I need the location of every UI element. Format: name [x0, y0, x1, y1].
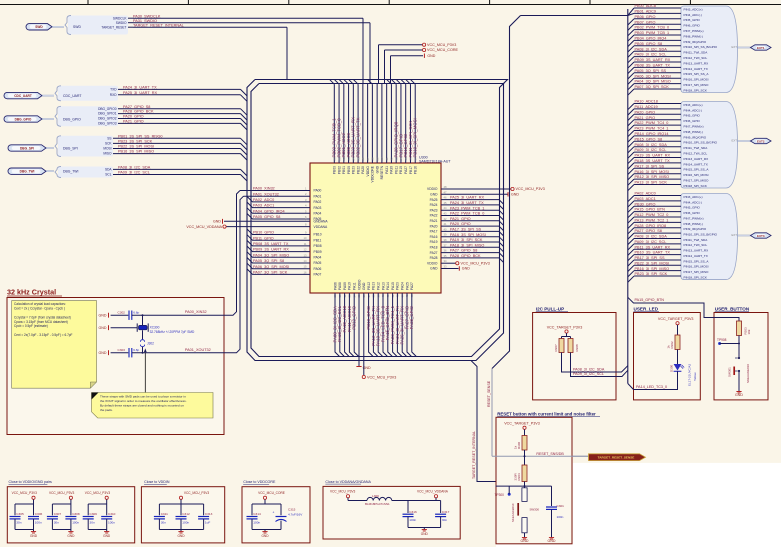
svg-text:VCC_MCU_P3V3: VCC_MCU_P3V3 [49, 491, 75, 495]
svg-text:100n: 100n [557, 515, 564, 519]
svg-text:PA31: PA31 [385, 166, 389, 174]
svg-text:PA17_3S_SPI_SS: PA17_3S_SPI_SS [450, 228, 482, 232]
svg-text:PA23: PA23 [430, 208, 438, 212]
svg-text:36: 36 [444, 249, 447, 253]
svg-text:Cext = 2x(7.0pF - 3.15pF - 0.5: Cext = 2x(7.0pF - 3.15pF - 0.5pF) = 6.7p… [14, 333, 73, 337]
svg-text:PIN15_SPI_SS_A: PIN15_SPI_SS_A [684, 259, 710, 263]
svg-text:DBG_SPI: DBG_SPI [20, 146, 34, 150]
svg-text:PB10_3S_UART_TX: PB10_3S_UART_TX [635, 251, 671, 255]
svg-text:PB12_GPIO: PB12_GPIO [352, 305, 357, 329]
svg-text:PIN14_UART_TX: PIN14_UART_TX [684, 162, 708, 166]
svg-text:Close to VDDCORE: Close to VDDCORE [243, 480, 276, 484]
svg-text:PIN7_PWM(+): PIN7_PWM(+) [684, 125, 704, 129]
svg-text:CDC_UART: CDC_UART [14, 94, 32, 98]
svg-text:PB01_3S_SPI_SS_RI9G0: PB01_3S_SPI_SS_RI9G0 [118, 134, 163, 138]
svg-text:EL17-21UYC/A2: EL17-21UYC/A2 [688, 363, 692, 386]
svg-text:PA27: PA27 [410, 282, 414, 290]
svg-text:MOSI: MOSI [103, 147, 111, 151]
svg-text:SWDIO: SWDIO [116, 21, 127, 25]
svg-text:USER_BUTTON: USER_BUTTON [715, 307, 750, 312]
svg-text:PA28: PA28 [430, 256, 438, 260]
svg-text:45: 45 [444, 201, 447, 205]
svg-text:TXD: TXD [110, 88, 117, 92]
svg-text:PB16: PB16 [414, 166, 418, 174]
svg-text:PA24: PA24 [401, 282, 405, 290]
svg-text:GND: GND [430, 193, 438, 197]
svg-text:DBG_GPIO1: DBG_GPIO1 [98, 112, 117, 116]
svg-text:GND: GND [99, 351, 107, 355]
svg-text:PIN10_SPI_SS_B/GPIO: PIN10_SPI_SS_B/GPIO [684, 232, 718, 236]
svg-text:44: 44 [444, 206, 447, 210]
svg-text:PA18: PA18 [430, 246, 438, 250]
svg-text:PA09_3I_I2C_SCL: PA09_3I_I2C_SCL [635, 240, 667, 244]
svg-text:PA06: PA06 [333, 282, 337, 290]
svg-text:PA14: PA14 [386, 282, 390, 290]
svg-text:VDDIO: VDDIO [427, 187, 438, 191]
svg-text:PB10: PB10 [399, 166, 403, 174]
svg-text:GND: GND [427, 54, 435, 58]
svg-text:R306: R306 [517, 441, 521, 449]
svg-text:VCC_MCU_CORE: VCC_MCU_CORE [427, 48, 458, 52]
svg-text:PB11_GPIO: PB11_GPIO [253, 236, 274, 240]
svg-text:PIN18_SPI_SCK: PIN18_SPI_SCK [684, 88, 708, 92]
svg-text:PA27: PA27 [430, 251, 438, 255]
svg-text:29: 29 [375, 157, 379, 160]
svg-text:C303: C303 [118, 348, 126, 352]
svg-text:PA28_GPIO_IRQ8: PA28_GPIO_IRQ8 [635, 224, 667, 228]
svg-text:PA02: PA02 [314, 200, 322, 204]
svg-text:30n: 30n [54, 521, 59, 525]
svg-text:EXT1: EXT1 [757, 46, 765, 50]
svg-text:GND: GND [99, 313, 107, 317]
svg-text:10: 10 [304, 236, 307, 240]
svg-text:SDA: SDA [105, 168, 112, 172]
svg-text:38: 38 [444, 238, 447, 242]
svg-text:PA21_GPIO: PA21_GPIO [123, 120, 144, 124]
svg-text:PA05_3Q_SPI_S8: PA05_3Q_SPI_S8 [253, 259, 284, 263]
svg-text:100n: 100n [72, 521, 79, 525]
svg-text:PIN10_SPI_SS_B/GPIO: PIN10_SPI_SS_B/GPIO [684, 45, 718, 49]
svg-text:PA00: PA00 [314, 189, 322, 193]
svg-text:PA03_ADC1: PA03_ADC1 [635, 197, 656, 201]
svg-text:D300: D300 [669, 364, 673, 372]
svg-text:VDDCORE: VDDCORE [371, 165, 375, 182]
svg-text:PB08_3S_UART_TX: PB08_3S_UART_TX [253, 242, 289, 246]
svg-text:VCC_MCU_P3V3: VCC_MCU_P3V3 [330, 490, 356, 494]
svg-text:PA27: PA27 [404, 166, 408, 174]
svg-text:RESET button with current limi: RESET button with current limit and nois… [497, 411, 596, 416]
svg-text:PIN9_IRQ/GPIO: PIN9_IRQ/GPIO [684, 40, 707, 44]
svg-text:30: 30 [380, 157, 384, 160]
svg-text:EXT2: EXT2 [757, 139, 765, 143]
svg-text:33: 33 [444, 265, 447, 269]
svg-text:DBG_TWI: DBG_TWI [63, 170, 79, 174]
svg-text:GND: GND [177, 534, 185, 538]
svg-text:41: 41 [444, 222, 447, 226]
svg-text:EXT: EXT [732, 139, 738, 143]
svg-text:GND: GND [548, 539, 556, 543]
svg-text:PB03: PB03 [333, 166, 337, 174]
svg-text:C310: C310 [108, 512, 116, 516]
svg-text:PA31_SWDIO: PA31_SWDIO [133, 19, 157, 23]
svg-text:14: 14 [304, 259, 307, 263]
svg-text:PA15_GPIO_BTN: PA15_GPIO_BTN [635, 298, 665, 302]
svg-text:Close to VDDIO/GND pairs: Close to VDDIO/GND pairs [9, 480, 53, 484]
svg-text:PIN10_SPI_SS_B/GPIO: PIN10_SPI_SS_B/GPIO [684, 141, 718, 145]
svg-text:PA05_GPIO_S8: PA05_GPIO_S8 [253, 215, 280, 219]
svg-text:PA20_GPIO: PA20_GPIO [450, 222, 471, 226]
svg-text:32 kHz Crystal: 32 kHz Crystal [7, 288, 56, 297]
svg-text:C317: C317 [442, 510, 450, 514]
svg-text:30n: 30n [16, 521, 21, 525]
svg-text:MISO: MISO [103, 152, 112, 156]
svg-text:GND: GND [213, 220, 221, 224]
svg-text:PA09_3I_I2C_SCL: PA09_3I_I2C_SCL [118, 171, 150, 175]
svg-text:PA08_3I_I2C_SDA: PA08_3I_I2C_SDA [573, 367, 605, 371]
svg-text:GND: GND [362, 282, 366, 290]
svg-text:PB10_3I_SPI_MOSI: PB10_3I_SPI_MOSI [413, 118, 418, 157]
svg-text:PA04: PA04 [314, 212, 322, 216]
svg-text:TARGET_RESET_INTERNAL: TARGET_RESET_INTERNAL [472, 431, 476, 479]
svg-text:GND: GND [375, 165, 379, 173]
svg-text:PA16_3S_SPI_MOSI: PA16_3S_SPI_MOSI [450, 233, 486, 237]
svg-text:PA06_3Q_SPI_MOSI: PA06_3Q_SPI_MOSI [635, 74, 671, 78]
svg-text:47: 47 [444, 190, 447, 194]
svg-text:PB23: PB23 [352, 166, 356, 174]
svg-text:PB12: PB12 [367, 282, 371, 290]
svg-text:PA28_GPIO_BCK: PA28_GPIO_BCK [123, 110, 154, 114]
svg-text:PB16_3S_SPI_MISO: PB16_3S_SPI_MISO [118, 150, 154, 154]
svg-text:PA19_3S_UART_RX: PA19_3S_UART_RX [635, 154, 671, 158]
svg-text:PA18_3S_UART_TX: PA18_3S_UART_TX [635, 159, 671, 163]
svg-text:PA30: PA30 [390, 166, 394, 174]
svg-text:42: 42 [444, 217, 447, 221]
svg-text:PA01_XOUT32: PA01_XOUT32 [185, 348, 211, 352]
svg-text:PB23_3I_SPI_SCK: PB23_3I_SPI_SCK [635, 272, 668, 276]
svg-text:6.8p: 6.8p [133, 348, 139, 352]
svg-text:PIN5_GPIO: PIN5_GPIO [684, 18, 701, 22]
svg-text:These straps with SMD pads can: These straps with SMD pads can be used t… [100, 394, 186, 398]
svg-text:PA22: PA22 [430, 214, 438, 218]
svg-text:PIN9_IRQ/GPIO: PIN9_IRQ/GPIO [684, 135, 707, 139]
svg-text:PIN14_UART_TX: PIN14_UART_TX [684, 67, 708, 71]
svg-text:R302: R302 [670, 341, 674, 349]
svg-text:PA23: PA23 [396, 282, 400, 290]
svg-text:C305: C305 [16, 512, 24, 516]
svg-text:PIN12_TWI_SCL: PIN12_TWI_SCL [684, 152, 708, 156]
svg-text:RESETN: RESETN [380, 165, 384, 179]
svg-text:PB11_3S_UART_RX: PB11_3S_UART_RX [635, 245, 671, 249]
svg-text:PA10_ADC18: PA10_ADC18 [635, 100, 658, 104]
svg-text:EXT: EXT [732, 45, 738, 49]
svg-text:PA08: PA08 [338, 282, 342, 290]
svg-text:C316: C316 [409, 510, 417, 514]
svg-text:BLM18PG471SN1: BLM18PG471SN1 [365, 502, 390, 506]
svg-text:PA20_GPIO: PA20_GPIO [635, 110, 656, 114]
svg-text:PA21_GPIO: PA21_GPIO [450, 217, 471, 221]
svg-text:XC300: XC300 [150, 325, 160, 329]
svg-text:PA24_3I_UART_TX: PA24_3I_UART_TX [123, 86, 157, 90]
svg-text:PA07_3Q_SPI_SCK: PA07_3Q_SPI_SCK [253, 271, 288, 275]
svg-text:C306: C306 [35, 512, 43, 516]
svg-text:C309: C309 [90, 512, 98, 516]
svg-text:PB02_PWM_TCB_0: PB02_PWM_TCB_0 [635, 26, 670, 30]
svg-text:100n: 100n [253, 521, 260, 525]
svg-text:PIN4_ADC(-): PIN4_ADC(-) [684, 13, 702, 17]
svg-text:RXD: RXD [110, 93, 117, 97]
svg-text:GND: GND [735, 393, 743, 397]
svg-text:PA06: PA06 [314, 267, 322, 271]
svg-text:PB23_3S_SPI_SCK: PB23_3S_SPI_SCK [118, 140, 153, 144]
svg-text:27: 27 [366, 157, 370, 160]
svg-text:VCC_MCU_VDDANA: VCC_MCU_VDDANA [186, 225, 222, 229]
svg-text:PA16: PA16 [430, 235, 438, 239]
svg-text:PB08_3S_UART_TX: PB08_3S_UART_TX [635, 64, 671, 68]
svg-text:PIN12_TWI_SCL: PIN12_TWI_SCL [684, 56, 708, 60]
svg-text:PB16_3I_SPI_MISO: PB16_3I_SPI_MISO [635, 267, 670, 271]
svg-text:PIN6_GPIO: PIN6_GPIO [684, 24, 701, 28]
svg-text:EXT: EXT [732, 233, 738, 237]
svg-text:PA07_3Q_SPI_SCK: PA07_3Q_SPI_SCK [635, 85, 670, 89]
svg-text:GND: GND [30, 534, 38, 538]
svg-text:Cext = 2x ( Ccrystal - Cpara -: Cext = 2x ( Ccrystal - Cpara - Cpcb ) [14, 307, 65, 311]
svg-text:PA25: PA25 [405, 282, 409, 290]
svg-text:PA13_3I_SPI_SCK: PA13_3I_SPI_SCK [635, 181, 668, 185]
svg-text:37: 37 [444, 243, 447, 247]
svg-text:PB22_3I_SPI_MOSI: PB22_3I_SPI_MOSI [635, 261, 670, 265]
svg-text:1uF: 1uF [205, 521, 210, 525]
svg-text:PB08: PB08 [314, 244, 322, 248]
svg-text:VCC_TARGET_P3V3: VCC_TARGET_P3V3 [658, 317, 694, 321]
svg-text:PB01: PB01 [342, 166, 346, 174]
svg-text:PIN16_SPI_MOSI: PIN16_SPI_MOSI [684, 173, 709, 177]
svg-text:PB07_GPIO: PB07_GPIO [635, 20, 656, 24]
svg-text:PIN9_IRQ/GPIO: PIN9_IRQ/GPIO [684, 227, 707, 231]
svg-text:TP300: TP300 [495, 493, 505, 497]
svg-text:100n: 100n [409, 518, 416, 522]
svg-text:Close to VDDANA/GNDANA: Close to VDDANA/GNDANA [325, 480, 371, 484]
svg-text:VCC_MCU_VDDANA: VCC_MCU_VDDANA [417, 490, 449, 494]
svg-text:1k: 1k [666, 345, 670, 349]
svg-text:PIN11_TWI_SDA: PIN11_TWI_SDA [684, 238, 709, 242]
svg-text:PB10_GPIO: PB10_GPIO [253, 231, 274, 235]
svg-text:PA25: PA25 [430, 198, 438, 202]
svg-text:SCK: SCK [105, 142, 112, 146]
svg-text:PB09_3S_UART_RX: PB09_3S_UART_RX [635, 58, 671, 62]
svg-text:J302: J302 [147, 341, 154, 345]
svg-text:+: + [273, 510, 275, 514]
svg-text:TARGET_RESET_INTERNAL: TARGET_RESET_INTERNAL [133, 23, 184, 27]
svg-text:GND: GND [67, 534, 75, 538]
svg-text:C314: C314 [253, 512, 261, 516]
svg-text:PA21: PA21 [430, 219, 438, 223]
svg-text:TARGET_RESET: TARGET_RESET [101, 25, 126, 29]
svg-text:VCC_MCU_P3V3: VCC_MCU_P3V3 [367, 375, 396, 379]
svg-text:PIN15_SPI_SS_A: PIN15_SPI_SS_A [684, 168, 710, 172]
svg-text:PIN11_TWI_SDA: PIN11_TWI_SDA [684, 146, 709, 150]
svg-text:C315: C315 [288, 508, 296, 512]
svg-text:SWD: SWD [73, 25, 81, 29]
svg-text:100n: 100n [182, 521, 189, 525]
svg-text:PA23_PWM_TC4_1: PA23_PWM_TC4_1 [635, 127, 669, 131]
svg-text:PA28_GPIO: PA28_GPIO [409, 305, 414, 329]
svg-text:By default these straps are cl: By default these straps are closed and n… [100, 404, 184, 408]
svg-text:PA03: PA03 [314, 206, 322, 210]
svg-text:30n: 30n [161, 521, 166, 525]
svg-text:PIN6_GPIO: PIN6_GPIO [684, 119, 701, 123]
svg-text:GND: GND [261, 534, 269, 538]
svg-text:PIN8_PWM(-): PIN8_PWM(-) [684, 34, 703, 38]
svg-text:C312: C312 [182, 512, 190, 516]
svg-text:PIN4_ADC(-): PIN4_ADC(-) [684, 108, 702, 112]
svg-text:RESET_SENSE: RESET_SENSE [487, 380, 491, 407]
svg-text:PA05_3Q_SPI_SS: PA05_3Q_SPI_SS [635, 69, 667, 73]
svg-text:DBG_GPIO: DBG_GPIO [63, 117, 81, 121]
svg-text:Yellow: Yellow [693, 372, 697, 381]
svg-text:PA09_3I_I2C_SCL: PA09_3I_I2C_SCL [635, 148, 667, 152]
svg-text:48: 48 [444, 185, 447, 189]
svg-text:PA17: PA17 [430, 230, 438, 234]
svg-text:VCC_MCU_CORE: VCC_MCU_CORE [258, 491, 285, 495]
svg-text:SWD: SWD [35, 25, 43, 29]
svg-text:PA25_3I_UART_RX: PA25_3I_UART_RX [123, 91, 158, 95]
svg-text:330R: 330R [513, 472, 517, 480]
svg-text:PA20_GPIO: PA20_GPIO [123, 115, 144, 119]
svg-text:PB10: PB10 [314, 233, 322, 237]
svg-text:DBG_SPI: DBG_SPI [63, 146, 78, 150]
svg-text:PB04_GPIO_IRQ4: PB04_GPIO_IRQ4 [635, 37, 667, 41]
svg-text:PA00_XIN32: PA00_XIN32 [253, 187, 275, 191]
svg-text:PB05_GPIO_S8: PB05_GPIO_S8 [635, 42, 663, 46]
svg-text:PA03_ADC1: PA03_ADC1 [253, 204, 274, 208]
svg-text:PIN7_PWM(+): PIN7_PWM(+) [684, 216, 704, 220]
svg-text:40: 40 [444, 227, 447, 231]
svg-text:PIN14_UART_TX: PIN14_UART_TX [684, 254, 708, 258]
svg-text:GND: GND [462, 267, 470, 271]
svg-text:PA25_3I_UART_RX: PA25_3I_UART_RX [450, 196, 485, 200]
svg-text:28: 28 [371, 157, 375, 160]
svg-text:PA04: PA04 [314, 256, 322, 260]
svg-text:PA20: PA20 [430, 224, 438, 228]
svg-text:PA30_SWDCLK: PA30_SWDCLK [133, 14, 161, 18]
svg-text:GND: GND [103, 534, 111, 538]
svg-text:PIN16_SPI_MOSI: PIN16_SPI_MOSI [684, 265, 709, 269]
svg-text:PB11: PB11 [314, 238, 322, 242]
svg-text:PA28: PA28 [361, 166, 365, 174]
svg-text:VCC_MCU_P3V3: VCC_MCU_P3V3 [85, 491, 111, 495]
svg-text:PA23_PWM_TCB_1: PA23_PWM_TCB_1 [450, 206, 484, 210]
svg-text:PIN4_ADC(-): PIN4_ADC(-) [684, 200, 702, 204]
svg-text:C308: C308 [72, 512, 80, 516]
svg-text:Calculation of crystal load ca: Calculation of crystal load capacitors: [14, 302, 66, 306]
svg-text:PIN8_PWM(-): PIN8_PWM(-) [684, 222, 703, 226]
svg-text:R307: R307 [554, 344, 558, 352]
svg-text:100n: 100n [35, 521, 42, 525]
svg-text:EXT3: EXT3 [757, 234, 765, 238]
svg-text:PA07: PA07 [314, 273, 322, 277]
svg-text:VDDANA: VDDANA [314, 225, 329, 229]
svg-text:PA15_GPIO_BTN: PA15_GPIO_BTN [635, 208, 666, 212]
svg-text:PB01_ADC9: PB01_ADC9 [635, 10, 657, 14]
svg-text:the XOUT signal in order to me: the XOUT signal in order to measure the … [100, 399, 187, 403]
svg-text:VCC_TARGET_P3V3: VCC_TARGET_P3V3 [504, 422, 540, 426]
svg-text:VCC_MCU_P3V3: VCC_MCU_P3V3 [516, 187, 545, 191]
svg-text:PIN8_PWM(-): PIN8_PWM(-) [684, 130, 703, 134]
svg-text:PA14_LED_TC3_0: PA14_LED_TC3_0 [636, 385, 667, 389]
svg-text:DBG_GPIO2: DBG_GPIO2 [98, 117, 117, 121]
svg-text:PB14_GPIO_IRQ14: PB14_GPIO_IRQ14 [635, 132, 669, 136]
svg-text:C307: C307 [54, 512, 62, 516]
svg-text:PIN16_SPI_MOSI: PIN16_SPI_MOSI [684, 78, 709, 82]
svg-text:PA04_3Q_SPI_MISO: PA04_3Q_SPI_MISO [253, 253, 289, 257]
svg-text:PB02: PB02 [337, 166, 341, 174]
svg-text:PA08_3I_I2C_SDA: PA08_3I_I2C_SDA [118, 166, 151, 170]
svg-text:32.768kHz +/-20PPM 7pF SMD: 32.768kHz +/-20PPM 7pF SMD [150, 330, 195, 334]
svg-text:PB15_GPIO_S8: PB15_GPIO_S8 [635, 137, 663, 141]
svg-text:PA06_3Q_SPI_MOSI: PA06_3Q_SPI_MOSI [253, 265, 289, 269]
svg-text:GND: GND [511, 192, 519, 196]
svg-text:GNDANA: GNDANA [314, 220, 329, 224]
svg-text:1k: 1k [513, 445, 517, 449]
svg-text:PA19_3I_SPI_SCK: PA19_3I_SPI_SCK [450, 238, 483, 242]
svg-text:13: 13 [304, 253, 307, 257]
svg-text:PB11: PB11 [394, 166, 398, 174]
svg-text:USER_LED: USER_LED [634, 307, 659, 312]
svg-text:PIN6_GPIO: PIN6_GPIO [684, 211, 701, 215]
svg-text:PA00_XIN32: PA00_XIN32 [185, 310, 207, 314]
svg-text:VDDIO: VDDIO [427, 261, 438, 265]
svg-text:R308: R308 [575, 344, 579, 352]
svg-text:PB22_3S_UART_TX: PB22_3S_UART_TX [356, 117, 361, 157]
svg-text:PB17: PB17 [409, 166, 413, 174]
svg-text:PIN17_SPI_MISO: PIN17_SPI_MISO [684, 83, 710, 87]
svg-text:PA05: PA05 [314, 261, 322, 265]
svg-text:PIN3_ADC(+): PIN3_ADC(+) [684, 7, 703, 11]
svg-text:PA09: PA09 [343, 282, 347, 290]
svg-text:30n: 30n [90, 521, 95, 525]
svg-text:12: 12 [304, 248, 307, 252]
svg-text:26: 26 [361, 157, 365, 160]
svg-text:PA27_GPIO_S8: PA27_GPIO_S8 [635, 229, 662, 233]
svg-text:GND: GND [430, 267, 438, 271]
svg-text:PA02_ADC0: PA02_ADC0 [635, 192, 656, 196]
svg-text:PIN7_PWM(+): PIN7_PWM(+) [684, 29, 704, 33]
svg-text:PIN5_GPIO: PIN5_GPIO [684, 114, 701, 118]
svg-text:TP908: TP908 [717, 338, 727, 342]
svg-text:PB00: PB00 [347, 166, 351, 174]
svg-text:GND: GND [521, 539, 529, 543]
svg-text:VDDIO: VDDIO [357, 279, 361, 290]
svg-text:PA24_3I_UART_TX: PA24_3I_UART_TX [450, 201, 484, 205]
svg-text:PIN13_UART_RX: PIN13_UART_RX [684, 249, 709, 253]
svg-text:PIN3_ADC(+): PIN3_ADC(+) [684, 195, 703, 199]
svg-text:VCC_MCU_P3V3: VCC_MCU_P3V3 [427, 43, 456, 47]
svg-text:30n: 30n [442, 518, 447, 522]
svg-text:R304: R304 [517, 473, 521, 481]
svg-text:PA08_3I_I2C_SDA: PA08_3I_I2C_SDA [635, 47, 668, 51]
svg-text:PA27_GPIO_S8: PA27_GPIO_S8 [123, 105, 150, 109]
svg-text:16: 16 [304, 270, 307, 274]
svg-text:PA04_GPIO_IRQ4: PA04_GPIO_IRQ4 [253, 209, 285, 213]
svg-text:SWDCLK: SWDCLK [113, 16, 128, 20]
svg-text:PIN13_UART_RX: PIN13_UART_RX [684, 157, 709, 161]
svg-text:6.8p: 6.8p [133, 311, 139, 315]
svg-text:Ccrystal = 7.0pF (from crystal: Ccrystal = 7.0pF (from crystal datasheet… [14, 315, 71, 319]
svg-text:PA12: PA12 [377, 282, 381, 290]
svg-text:SAMD21E18A-AUT: SAMD21E18A-AUT [419, 160, 451, 164]
svg-text:DBG_GPIO0: DBG_GPIO0 [98, 107, 117, 111]
svg-text:PIN3_ADC(+): PIN3_ADC(+) [684, 103, 703, 107]
